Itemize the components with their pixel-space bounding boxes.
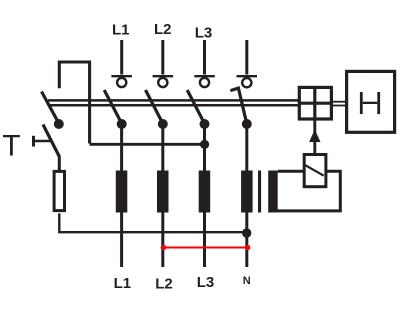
- svg-text:L1: L1: [112, 22, 130, 39]
- wire N input lead: [245, 40, 248, 75]
- trip relay K1: [304, 155, 326, 187]
- wire L1 output: [120, 212, 123, 267]
- switch contact blade pole 0 (test pole): [42, 92, 59, 124]
- junction dot on L3 conductor: [200, 140, 209, 149]
- node N: [242, 119, 252, 129]
- wire L2 node to winding: [161, 124, 164, 172]
- terminal X2 (L2 input): [153, 76, 174, 87]
- wire N output: [245, 212, 248, 267]
- wire trip bar to L3 node: [90, 143, 205, 146]
- node L3: [200, 119, 210, 129]
- wire L3 node to winding: [203, 124, 206, 172]
- svg-text:T: T: [2, 129, 20, 162]
- wire L3 output: [203, 212, 206, 267]
- mechanical linkage bar (trip bar): [59, 62, 89, 144]
- svg-text:L2: L2: [155, 276, 173, 293]
- primary winding N: [241, 171, 253, 213]
- wire L1 node to winding: [120, 124, 123, 172]
- wire resistor to N bottom junction: [59, 213, 247, 232]
- secondary circuit loop: [278, 170, 305, 173]
- svg-text:L2: L2: [154, 21, 172, 38]
- load box H: [347, 71, 395, 132]
- test button contact: [34, 136, 52, 147]
- wire actuator to H box (double line): [332, 102, 347, 106]
- wire L2 input lead: [161, 40, 164, 75]
- primary winding L1 (through toroid): [116, 171, 128, 213]
- switch contact blade pole L3: [187, 90, 204, 124]
- fault current path (red) L2 to N: [161, 245, 251, 251]
- svg-text:L1: L1: [114, 275, 132, 292]
- svg-text:L3: L3: [197, 274, 215, 291]
- busbar (double line): [48, 100, 298, 105]
- primary winding L2: [157, 171, 169, 213]
- node L1: [117, 119, 127, 129]
- switch contact blade pole N (with leading tick): [230, 88, 246, 123]
- test button blade: [43, 125, 59, 157]
- primary winding L3: [199, 171, 211, 213]
- wire relay to actuator with arrowhead: [309, 120, 320, 155]
- secondary winding bar: [268, 171, 278, 213]
- svg-text:L3: L3: [195, 25, 213, 42]
- wire L1 input lead: [120, 40, 123, 75]
- svg-text:N: N: [243, 275, 251, 287]
- junction dot N bottom: [242, 228, 251, 237]
- actuator box (switch mechanism): [299, 87, 331, 119]
- resistor R (test resistor): [54, 171, 64, 210]
- switch contact blade pole L2: [146, 90, 163, 124]
- wire L3 input lead: [203, 40, 206, 75]
- node L2: [158, 119, 168, 129]
- terminal X3 (L3 input): [194, 76, 215, 87]
- switch contact blade pole L1: [104, 90, 122, 124]
- terminal X4 (N input): [237, 76, 258, 87]
- wire L2 output: [161, 212, 164, 267]
- node pole 0: [54, 119, 64, 129]
- toroid core line: [258, 171, 261, 213]
- wire N node to winding: [245, 124, 248, 172]
- terminal X1 (L1 input): [111, 76, 131, 87]
- wire blade to resistor: [58, 156, 61, 171]
